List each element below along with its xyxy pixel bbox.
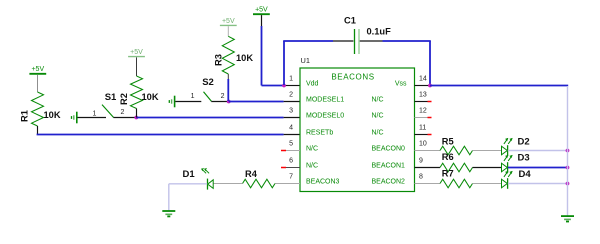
switch S1 [78,92,137,118]
svg-text:R5: R5 [442,137,454,147]
LED D2 [502,137,530,156]
svg-text:1: 1 [289,75,293,82]
U1 pin 12 no-connect stub [415,117,432,119]
svg-text:N/C: N/C [306,145,318,152]
U1 pin number 8 [419,173,423,180]
svg-text:12: 12 [419,107,427,114]
svg-text:+5V: +5V [31,66,44,73]
svg-text:10K: 10K [236,53,253,63]
junction node Vss/C1 [428,84,432,88]
U1 pin number 12 [419,107,427,114]
svg-text:+5V: +5V [130,49,143,56]
svg-text:N/C: N/C [372,129,384,136]
svg-text:C1: C1 [344,15,356,25]
svg-text:D1: D1 [183,169,196,180]
svg-text:R1: R1 [20,110,30,122]
U1 pin number 4 [289,124,293,131]
U1 pin 6 no-connect stub [281,167,300,169]
U1 left label N/C pin 6 [306,162,318,169]
svg-text:RESETb: RESETb [306,129,333,136]
wire net RESETb to pin 4 [37,134,300,136]
U1 pin number 7 [289,173,293,180]
svg-text:D3: D3 [518,153,530,164]
U1 right label BEACON0 pin 10 [372,145,406,152]
wire R6 to D3 [473,167,502,169]
U1 right label Vss pin 14 [395,80,407,87]
svg-text:BEACON0: BEACON0 [372,145,406,152]
U1 pin 14 stub [415,85,431,87]
svg-text:10K: 10K [44,110,61,120]
svg-text:1: 1 [191,93,195,100]
junction node D4/rail [566,182,570,186]
resistor R7 [440,168,473,187]
resistor R2 [119,76,159,109]
svg-text:11: 11 [419,124,426,131]
svg-text:S2: S2 [202,77,214,88]
op-amp U1 BEACONS IC body [300,56,415,192]
svg-text:R6: R6 [442,152,454,162]
svg-text:BEACONS: BEACONS [331,73,374,82]
U1 pin 10 stub [415,150,441,152]
U1 left label BEACON3 pin 7 [306,178,340,185]
svg-text:S1: S1 [105,92,117,103]
svg-text:14: 14 [419,75,427,82]
ground (rail) [561,216,574,221]
svg-text:8: 8 [419,173,423,180]
junction node D3/rail [566,166,570,170]
resistor R5 [440,137,473,155]
U1 left label MODESEL1 pin 2 [306,96,344,103]
resistor R6 [440,152,473,172]
svg-text:MODESEL0: MODESEL0 [306,112,344,119]
svg-text:R3: R3 [213,54,223,66]
U1 pin number 6 [289,157,293,164]
U1 left label N/C pin 5 [306,145,318,152]
svg-text:13: 13 [419,91,427,98]
svg-text:N/C: N/C [306,162,318,169]
svg-text:Vss: Vss [395,80,407,87]
wire R2 top lead [136,57,138,76]
wire Vss rail [430,85,568,87]
svg-text:2: 2 [221,93,225,100]
svg-text:2: 2 [289,91,293,98]
wire D2 to rail [508,150,568,152]
svg-text:3: 3 [289,107,293,114]
svg-text:N/C: N/C [372,112,384,119]
power +5V (U1 Vdd) [253,7,270,15]
wire R5 to D2 [473,150,502,152]
U1 right label N/C pin 11 [372,129,384,136]
U1 pin number 9 [419,157,423,164]
resistor R3 [213,36,253,74]
U1 pin number 1 [289,75,293,82]
wire R3 top lead [227,26,229,36]
svg-text:MODESEL1: MODESEL1 [306,96,344,103]
U1 pin 5 no-connect stub [281,150,300,152]
switch S2 [175,77,228,102]
resistor R1 [20,92,61,126]
wire Vdd riser [262,15,301,85]
svg-text:9: 9 [419,157,423,164]
svg-text:0.1uF: 0.1uF [367,27,392,37]
U1 pin 11 no-connect stub [415,134,432,136]
junction node Vdd/C1 [282,84,286,88]
U1 pin number 14 [419,75,427,82]
wire D3 to rail [508,167,568,169]
wire cathode rail [567,86,569,216]
U1 right label N/C pin 13 [372,96,384,103]
LED D1 [183,168,214,190]
power +5V (R2) [128,49,145,57]
U1 right label BEACON2 pin 8 [372,178,406,185]
svg-text:U1: U1 [301,56,310,65]
svg-text:1: 1 [93,110,97,117]
wire D4 to rail [508,183,568,185]
junction node S1/R2 [134,116,138,120]
wire R3 bottom lead [227,74,229,101]
svg-text:6: 6 [289,157,293,164]
svg-text:BEACON2: BEACON2 [372,178,406,185]
wire R2 bottom lead [136,109,138,118]
power +5V (R1) [29,66,46,74]
U1 pin number 10 [419,140,427,147]
U1 left label RESETb pin 4 [306,129,333,136]
U1 pin 7 stub / wire R4 to pin 7 [275,183,300,185]
svg-text:N/C: N/C [372,96,384,103]
wire D1 to R4 [214,183,243,185]
svg-text:5: 5 [289,140,293,147]
svg-text:7: 7 [289,173,293,180]
LED D4 [502,169,532,189]
svg-text:Vdd: Vdd [306,80,319,87]
svg-text:R2: R2 [119,93,129,105]
wire net MODESEL0 to pin 3 [136,117,300,119]
wire net MODESEL1 to pin 2 [229,101,300,103]
U1 pin number 3 [289,107,293,114]
ground (D1) [162,211,175,216]
U1 pin number 2 [289,91,293,98]
ground (S1) [72,112,77,124]
U1 pin 9 stub [415,167,441,169]
resistor R4 [243,169,276,188]
U1 pin number 13 [419,91,427,98]
power +5V (R3) [220,18,237,26]
svg-text:BEACON1: BEACON1 [372,162,406,169]
svg-text:4: 4 [289,124,293,131]
svg-text:D2: D2 [518,137,530,148]
svg-text:+5V: +5V [255,7,268,14]
U1 left label Vdd pin 1 [306,80,319,87]
svg-text:D4: D4 [519,169,532,180]
wire R7 to D4 [473,183,502,185]
ground (S2) [169,96,174,108]
U1 pin number 5 [289,140,293,147]
svg-text:R4: R4 [245,169,258,179]
svg-text:R7: R7 [442,168,454,178]
wire R1 top lead [37,75,39,92]
U1 right label BEACON1 pin 9 [372,162,406,169]
U1 right label N/C pin 12 [372,112,384,119]
U1 pin number 11 [419,124,426,131]
svg-text:10K: 10K [142,92,159,102]
wire D1 cathode to ground [169,184,207,211]
capacitor C1 [283,15,431,85]
U1 pin 8 stub [415,183,441,185]
svg-text:2: 2 [121,109,125,116]
junction node D2/rail [566,149,570,153]
wire R1 bottom lead [37,126,39,134]
svg-text:10: 10 [419,140,427,147]
junction node S2/R3 [227,100,231,104]
svg-text:+5V: +5V [222,18,235,25]
U1 left label MODESEL0 pin 3 [306,112,344,119]
U1 pin 13 no-connect stub [415,101,432,103]
LED D3 [502,153,530,173]
svg-text:BEACON3: BEACON3 [306,178,340,185]
